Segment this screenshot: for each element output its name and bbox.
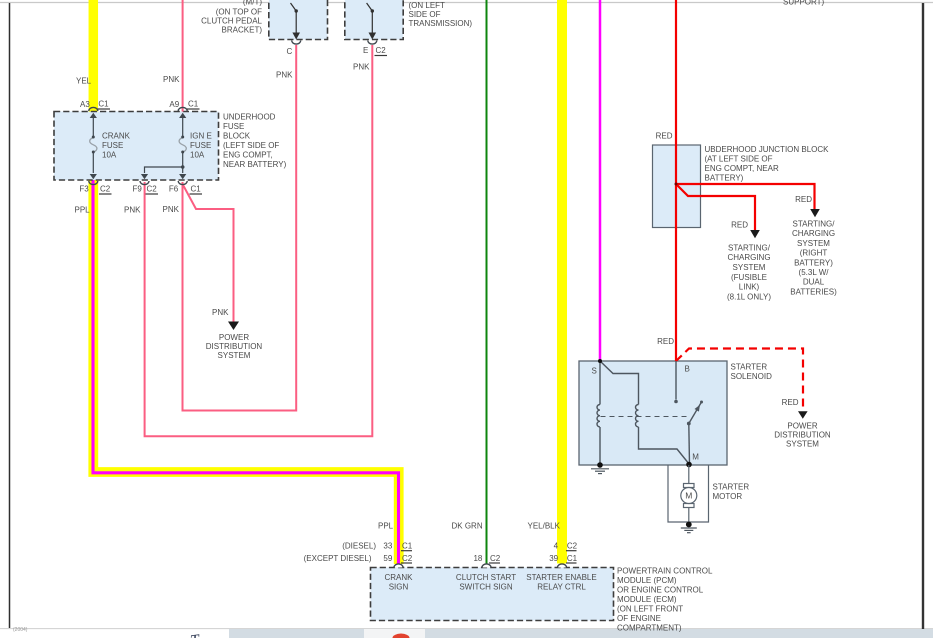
svg-text:DISTRIBUTION: DISTRIBUTION [206, 342, 263, 351]
svg-text:(DIESEL): (DIESEL) [342, 542, 376, 551]
svg-text:LINK): LINK) [739, 283, 760, 292]
svg-text:C: C [287, 47, 293, 56]
svg-text:(EXCEPT DIESEL): (EXCEPT DIESEL) [304, 554, 372, 563]
svg-text:MOTOR: MOTOR [713, 492, 743, 501]
svg-text:STARTING/: STARTING/ [793, 220, 836, 229]
svg-text:(8.1L ONLY): (8.1L ONLY) [727, 292, 771, 301]
svg-text:UBDERHOOD JUNCTION BLOCK: UBDERHOOD JUNCTION BLOCK [705, 145, 830, 154]
svg-text:BATTERY): BATTERY) [705, 174, 744, 183]
svg-text:C2: C2 [100, 185, 111, 194]
svg-text:B: B [685, 365, 690, 374]
svg-text:ENG COMPT,: ENG COMPT, [223, 151, 273, 160]
svg-text:(FUSIBLE: (FUSIBLE [731, 273, 767, 282]
svg-text:CLUTCH PEDAL: CLUTCH PEDAL [201, 17, 262, 26]
svg-text:MODULE (PCM): MODULE (PCM) [617, 576, 677, 585]
svg-text:F9: F9 [132, 185, 142, 194]
svg-text:10A: 10A [102, 151, 117, 160]
svg-text:SYSTEM: SYSTEM [786, 440, 819, 449]
svg-text:MODULE (ECM): MODULE (ECM) [617, 595, 677, 604]
svg-text:(LEFT SIDE OF: (LEFT SIDE OF [223, 141, 279, 150]
svg-text:10A: 10A [190, 151, 205, 160]
svg-text:C1: C1 [191, 185, 202, 194]
svg-text:C2: C2 [376, 46, 387, 55]
svg-text:C1: C1 [402, 542, 413, 551]
svg-text:RED: RED [656, 132, 673, 141]
svg-text:PNK: PNK [212, 308, 229, 317]
svg-text:33: 33 [383, 542, 392, 551]
svg-text:POWER: POWER [219, 333, 249, 342]
svg-text:FUSE: FUSE [190, 141, 211, 150]
svg-text:RED: RED [795, 195, 812, 204]
svg-text:BATTERY): BATTERY) [794, 258, 833, 267]
svg-text:BATTERIES): BATTERIES) [790, 287, 837, 296]
svg-text:STARTER: STARTER [731, 363, 768, 372]
svg-text:DUAL: DUAL [803, 278, 825, 287]
svg-text:FUSE: FUSE [223, 122, 244, 131]
svg-text:(AT LEFT SIDE OF: (AT LEFT SIDE OF [705, 155, 773, 164]
svg-text:ENG COMPT, NEAR: ENG COMPT, NEAR [705, 164, 779, 173]
svg-text:CLUTCH START: CLUTCH START [456, 573, 516, 582]
svg-text:S: S [592, 367, 597, 376]
svg-text:PNK: PNK [276, 71, 293, 80]
svg-text:STARTER ENABLE: STARTER ENABLE [526, 573, 596, 582]
svg-text:PNK: PNK [163, 75, 180, 84]
svg-text:PNK: PNK [353, 63, 370, 72]
svg-text:CHARGING: CHARGING [727, 253, 770, 262]
svg-text:TRANSMISSION): TRANSMISSION) [409, 19, 473, 28]
svg-text:STARTING/: STARTING/ [728, 243, 771, 252]
svg-text:C1: C1 [188, 100, 199, 109]
svg-text:C2: C2 [567, 542, 578, 551]
svg-text:18: 18 [473, 554, 482, 563]
svg-text:PNK: PNK [163, 205, 180, 214]
svg-text:RED: RED [731, 221, 748, 230]
svg-text:PPL: PPL [75, 206, 91, 215]
svg-text:SUPPORT): SUPPORT) [783, 0, 825, 7]
svg-text:C2: C2 [490, 554, 501, 563]
svg-text:SOLENOID: SOLENOID [731, 372, 773, 381]
svg-text:DISTRIBUTION: DISTRIBUTION [774, 431, 831, 440]
svg-text:C2: C2 [147, 185, 158, 194]
svg-text:C1: C1 [567, 554, 578, 563]
svg-text:(RIGHT: (RIGHT [800, 249, 828, 258]
svg-text:F6: F6 [169, 185, 179, 194]
svg-text:E: E [363, 46, 368, 55]
svg-text:A3: A3 [80, 100, 90, 109]
svg-text:RELAY CTRL: RELAY CTRL [537, 583, 586, 592]
svg-text:OF ENGINE: OF ENGINE [617, 614, 661, 623]
svg-text:YEL: YEL [76, 77, 92, 86]
svg-text:POWER: POWER [787, 422, 817, 431]
svg-text:YEL/BLK: YEL/BLK [528, 522, 561, 531]
svg-text:SYSTEM: SYSTEM [797, 239, 830, 248]
svg-text:PNK: PNK [124, 206, 141, 215]
svg-text:CHARGING: CHARGING [792, 229, 835, 238]
svg-text:SIDE OF: SIDE OF [409, 10, 441, 19]
svg-text:(2004): (2004) [13, 627, 28, 633]
svg-text:FUSE: FUSE [102, 141, 123, 150]
svg-text:M: M [685, 491, 692, 501]
svg-text:STARTER: STARTER [713, 483, 750, 492]
svg-text:RED: RED [782, 398, 799, 407]
svg-text:59: 59 [383, 554, 392, 563]
svg-text:SIGN: SIGN [389, 583, 409, 592]
svg-text:SYSTEM: SYSTEM [218, 351, 251, 360]
svg-text:RED: RED [657, 337, 674, 346]
svg-text:(M/T): (M/T) [243, 0, 262, 7]
svg-text:C2: C2 [402, 554, 413, 563]
svg-text:COMPARTMENT): COMPARTMENT) [617, 624, 682, 633]
svg-text:DK GRN: DK GRN [452, 522, 483, 531]
svg-text:NEAR BATTERY): NEAR BATTERY) [223, 160, 287, 169]
svg-text:UNDERHOOD: UNDERHOOD [223, 113, 276, 122]
svg-text:(ON LEFT FRONT: (ON LEFT FRONT [617, 605, 683, 614]
svg-text:IGN E: IGN E [190, 132, 212, 141]
svg-text:M: M [692, 453, 699, 462]
svg-text:C1: C1 [98, 100, 109, 109]
svg-text:CRANK: CRANK [102, 132, 131, 141]
svg-text:(ON LEFT: (ON LEFT [409, 1, 446, 10]
svg-text:OR ENGINE CONTROL: OR ENGINE CONTROL [617, 586, 704, 595]
svg-text:POWERTRAIN CONTROL: POWERTRAIN CONTROL [617, 567, 713, 576]
svg-text:BRACKET): BRACKET) [222, 26, 263, 35]
svg-text:BLOCK: BLOCK [223, 132, 251, 141]
svg-text:4: 4 [554, 542, 559, 551]
svg-text:A9: A9 [169, 100, 179, 109]
svg-text:SYSTEM: SYSTEM [733, 263, 766, 272]
svg-text:F3: F3 [79, 185, 89, 194]
svg-text:(5.3L W/: (5.3L W/ [799, 268, 830, 277]
svg-text:39: 39 [549, 554, 558, 563]
svg-text:PPL: PPL [378, 522, 394, 531]
svg-text:SWITCH SIGN: SWITCH SIGN [459, 583, 513, 592]
svg-text:(ON TOP OF: (ON TOP OF [216, 8, 262, 17]
svg-text:CRANK: CRANK [384, 573, 413, 582]
